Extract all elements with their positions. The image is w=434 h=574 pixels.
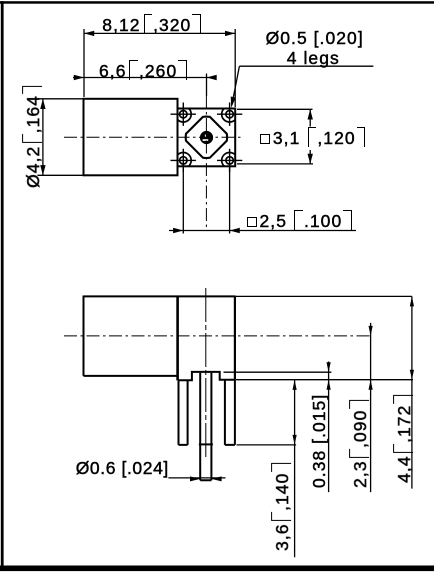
dimension 3,6: extension line at leg bottom <box>237 380 297 557</box>
label 4 legs <box>287 48 340 68</box>
top view: leg circles <box>180 111 234 165</box>
dimension 0.38: extension lines <box>224 362 414 493</box>
dimension square 3,1: dimension line split <box>309 109 311 164</box>
dimension 8,12: arrows <box>84 31 235 36</box>
leader for Dia 0.5 4 legs <box>232 66 374 105</box>
dimension square 3,1: extension lines <box>237 109 313 164</box>
bottom view: horizontal centerline <box>64 335 372 337</box>
dimension 8,12: dimension line <box>84 32 235 34</box>
frame left border <box>1 1 4 571</box>
dimension 2,3: dimension line <box>370 323 372 492</box>
label 6,6 [.260] <box>99 60 187 81</box>
bottom view: left edge <box>83 296 85 376</box>
dimension square 2,5: extension lines <box>169 168 356 234</box>
label Dia 0.6 [.024] <box>76 458 169 478</box>
dimension 3,6: arrows <box>293 380 297 445</box>
label square 3,1 [.120] <box>260 127 365 148</box>
dimension Dia 4,2: extension lines <box>37 99 84 176</box>
dimension 4,4: arrows <box>410 296 414 379</box>
dimension Dia 0.6: arrows <box>190 476 222 481</box>
dimension 8,12: extension lines <box>84 29 235 107</box>
dimension 4,4: extension continuation of top edge <box>236 296 412 488</box>
dimension 3,6: dimension line <box>294 380 296 557</box>
bottom view: outline top edge <box>84 295 236 297</box>
bottom view: leg column 1 <box>179 380 188 445</box>
top view: flange square <box>178 109 236 167</box>
bottom view: vertical centerline of pin <box>205 288 207 458</box>
bottom view: right edge <box>234 296 236 379</box>
dimension 6,6: right extension line <box>73 74 215 97</box>
top view: center contact <box>200 131 213 144</box>
label 3,6 [.140] rotated <box>271 463 292 551</box>
dimension 6,6: dimension line <box>73 77 215 79</box>
bottom view: center pin <box>200 373 211 481</box>
dimension Dia 4,2: arrows <box>40 99 45 176</box>
dimension 0.38: dimension line <box>328 362 330 493</box>
bottom view: bottom profile with pedestal recess <box>179 372 235 380</box>
dimension square 2,5: arrows (outside) <box>173 228 240 233</box>
dimension square 3,1: arrows <box>308 109 313 164</box>
dimension 6,6: arrows (outside) <box>74 75 217 80</box>
label Dia 0.5 [.020] <box>266 28 364 48</box>
top view: vertical centerline of flange <box>205 96 207 231</box>
dimension 4,4: dimension line <box>411 296 413 488</box>
frame top border <box>0 1 434 4</box>
top view: leg crosshairs <box>171 103 243 173</box>
dimension Dia 0.6: leader line <box>168 477 225 479</box>
dimension 2,3: arrows (outside) <box>369 326 373 390</box>
dimension 0.38: arrows (outside) <box>327 362 331 390</box>
label 2,3 [.090] rotated <box>349 400 370 488</box>
top view: connector body rectangle <box>84 99 178 176</box>
bottom view: body bottom edge <box>84 375 178 377</box>
dimension Dia 4,2: dimension line <box>42 99 44 176</box>
bottom view: leg column 2 <box>225 380 235 445</box>
frame bottom border <box>0 566 434 572</box>
top view: horizontal centerline <box>64 136 244 138</box>
leader arrowhead <box>231 97 236 108</box>
label square 2,5 [.100] <box>247 210 352 231</box>
label Dia 4,2 [.164] rotated <box>22 86 43 188</box>
label 0.38 [.015] rotated <box>309 394 329 488</box>
top view: interface circle with corner chamfers <box>186 117 227 158</box>
label 4,4 [.172] rotated <box>393 395 414 483</box>
top view: leg boss arcs clipped to flange <box>175 106 237 168</box>
bottom view: hidden leg bottom across pin <box>199 443 213 445</box>
bottom view: flange face thick line <box>176 296 179 380</box>
dimension square 2,5: dimension line <box>169 230 356 232</box>
label 8,12 [.320] <box>102 14 201 35</box>
